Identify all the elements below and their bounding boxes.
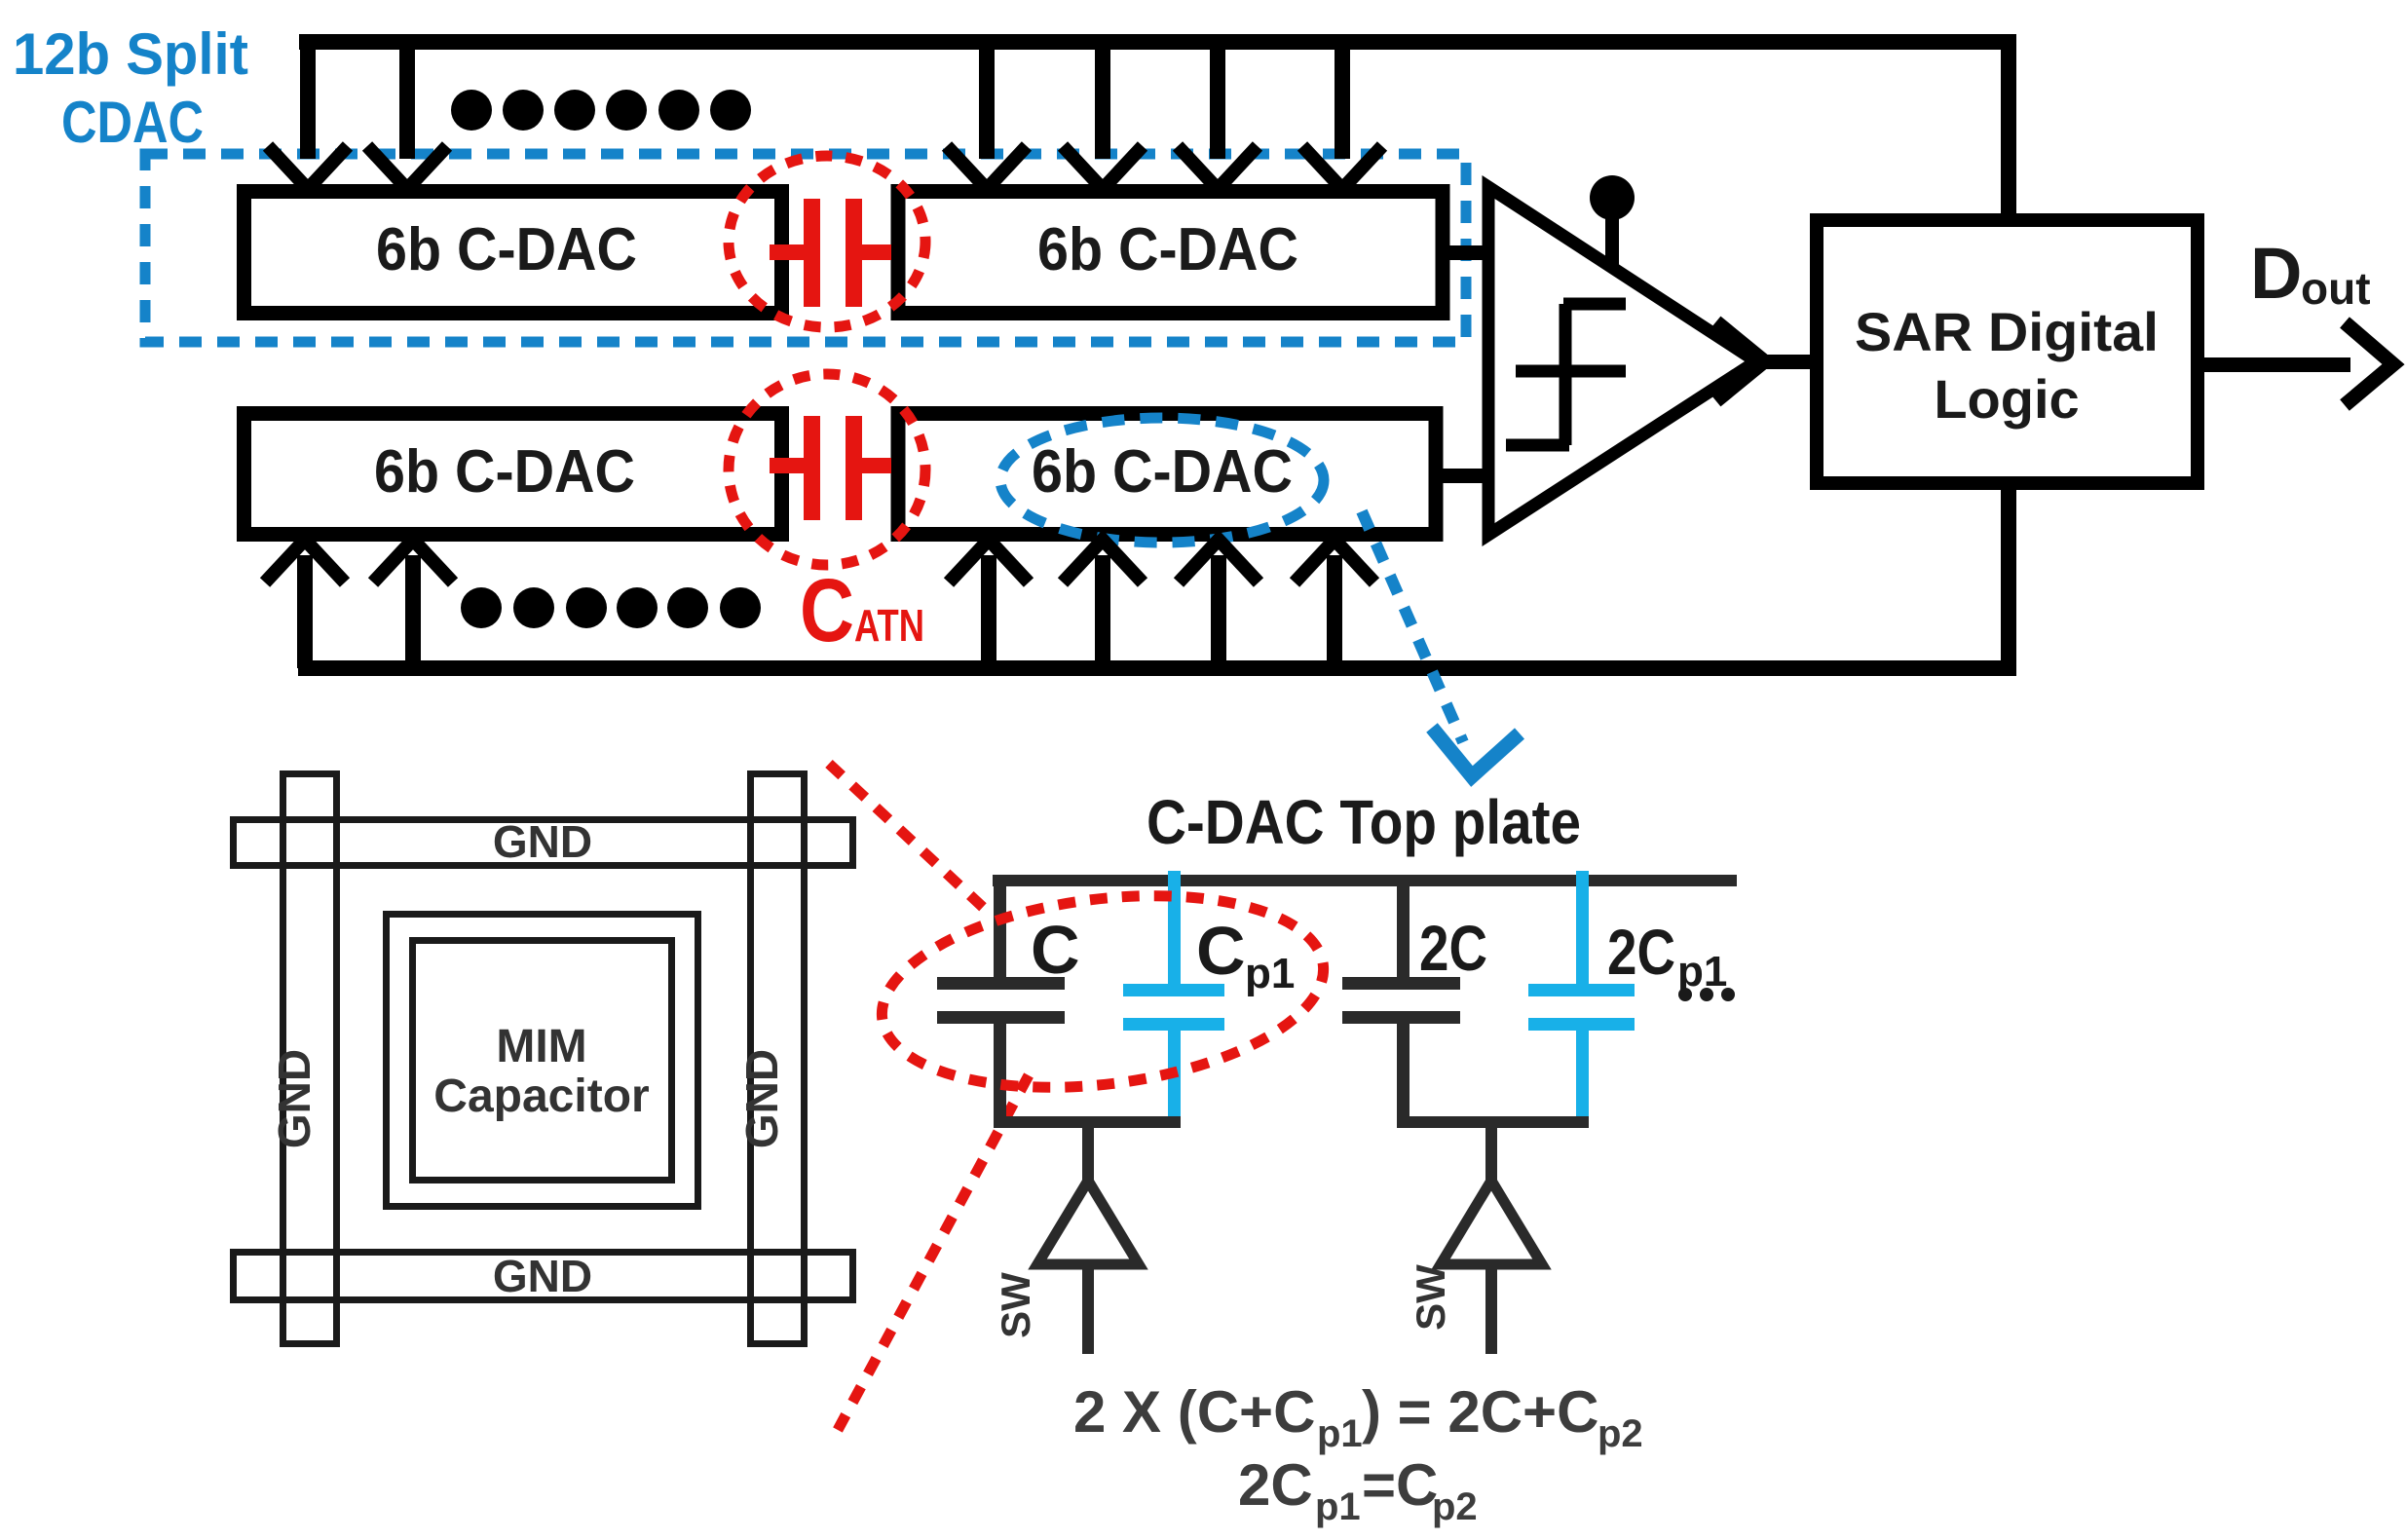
capacitor 2Cp1 vertical upper [1576, 871, 1589, 986]
svg-text:Logic: Logic [1934, 368, 2079, 430]
arrowhead down 3 [947, 146, 1027, 189]
capacitor 2C plates [1342, 977, 1460, 990]
branch C vertical upper [994, 884, 1006, 979]
svg-text:2C: 2C [1419, 912, 1487, 984]
arrowhead up 3 [949, 540, 1029, 582]
svg-text:CDAC: CDAC [61, 90, 204, 155]
svg-text:GND: GND [736, 1049, 787, 1148]
svg-text:6b C-DAC: 6b C-DAC [1032, 438, 1293, 506]
wire bottom arrow shaft 1 [297, 555, 313, 668]
svg-text:SAR Digital: SAR Digital [1855, 301, 2159, 362]
wire top feedback bus [299, 34, 2016, 50]
GND rail right [751, 774, 805, 1344]
GND rail bottom [234, 1253, 853, 1300]
wire bottom arrow shaft 6 [1327, 555, 1342, 668]
wire top arrow shaft 6 [1335, 42, 1350, 159]
top plate rail [993, 875, 1737, 886]
switch SW2 lower stub [1485, 1264, 1497, 1354]
comparator clock stem [1605, 198, 1619, 268]
GND rail top [234, 820, 853, 866]
arrowhead Dout [2345, 322, 2393, 405]
wire bottom arrow shaft 5 [1211, 555, 1226, 668]
capacitor Cp1 vertical upper [1168, 871, 1181, 986]
arrowhead up 5 [1179, 540, 1259, 582]
branch C vertical lower [994, 1024, 1006, 1122]
wire top arrow shaft 4 [1095, 42, 1110, 159]
arrowhead into SAR [1716, 321, 1765, 401]
wire comparator output [1749, 355, 1810, 369]
svg-text:p2: p2 [1598, 1412, 1643, 1455]
wire stub top DAC to comparator [1443, 245, 1488, 260]
svg-text:MIM: MIM [496, 1021, 586, 1072]
svg-text:6b C-DAC: 6b C-DAC [1037, 216, 1298, 283]
red dashed ellipse around C and Cp1 [871, 873, 1335, 1110]
wire top arrow shaft 3 [979, 42, 995, 159]
svg-text:p1: p1 [1315, 1485, 1361, 1528]
comparator hysteresis symbol [1563, 298, 1626, 311]
svg-text:12b Split: 12b Split [13, 21, 248, 87]
svg-text:GND: GND [493, 1251, 592, 1301]
svg-text:SW: SW [1408, 1264, 1453, 1331]
capacitor 2Cp1 vertical lower [1576, 1031, 1589, 1128]
capacitor CATN bottom plates [804, 416, 820, 520]
wire bottom feedback bus [298, 660, 2016, 676]
red dashed circle bottom [729, 374, 925, 565]
red dashed circle top [729, 156, 925, 327]
box 6b C-DAC bottom-right [898, 414, 1436, 535]
wire bottom arrow shaft 2 [405, 555, 421, 668]
branch 2C bottom wire [1397, 1116, 1589, 1128]
wire Dout output [2204, 357, 2350, 372]
svg-text:p1: p1 [1317, 1412, 1363, 1455]
wire stub bottom DAC to comparator [1443, 469, 1488, 483]
red dashed connector upper [829, 764, 988, 912]
dots top ellipsis [451, 90, 751, 131]
capacitor Cp1 vertical lower [1168, 1031, 1181, 1128]
svg-text:2C: 2C [1238, 1452, 1313, 1518]
branch 2C vertical lower [1397, 1024, 1410, 1122]
arrowhead up 4 [1063, 540, 1143, 582]
svg-text:SW: SW [993, 1272, 1038, 1338]
capacitor C plates [937, 977, 1065, 990]
switch SW2 stub [1485, 1128, 1497, 1208]
red dashed connector lower [838, 1075, 1029, 1430]
MIM capacitor inner frame [413, 941, 672, 1181]
svg-text:ATN: ATN [854, 600, 924, 651]
capacitor CATN top leads [770, 244, 804, 260]
svg-text:2 X (C+C: 2 X (C+C [1073, 1379, 1315, 1445]
switch SW1 lower stub [1082, 1264, 1094, 1354]
svg-text:GND: GND [269, 1049, 320, 1148]
switch SW2 triangle [1441, 1181, 1542, 1264]
branch 2C vertical upper [1397, 884, 1410, 979]
svg-text:C-DAC Top plate: C-DAC Top plate [1147, 787, 1581, 857]
comparator clock dot [1590, 175, 1635, 220]
capacitor 2Cp1 plates [1528, 984, 1635, 996]
GND rail left [283, 774, 337, 1344]
svg-text:6b C-DAC: 6b C-DAC [376, 216, 637, 283]
box 6b C-DAC top-right [898, 192, 1443, 314]
wire right vertical top to SAR [2001, 34, 2016, 220]
arrowhead up 2 [373, 540, 453, 582]
svg-text:D: D [2250, 233, 2302, 314]
svg-text:=C: =C [1362, 1452, 1438, 1518]
box 6b C-DAC top-left [244, 192, 782, 314]
CDAC boundary blue dashed rect [145, 154, 1466, 342]
box SAR Digital Logic [1817, 220, 2198, 483]
arrowhead up 6 [1295, 540, 1374, 582]
dots bottom ellipsis [461, 587, 761, 628]
wire SAR bottom vertical [2001, 483, 2016, 676]
arrowhead down 4 [1063, 146, 1143, 189]
capacitor CATN bottom leads [770, 458, 804, 473]
wire bottom arrow shaft 3 [981, 555, 996, 668]
comparator U1 triangle [1488, 187, 1756, 535]
switch SW1 triangle [1037, 1181, 1139, 1264]
wire top arrow shaft 2 [399, 42, 415, 159]
svg-text:Capacitor: Capacitor [433, 1070, 649, 1122]
MIM capacitor outer frame [387, 915, 698, 1207]
svg-text:C: C [1196, 913, 1246, 989]
arrowhead down 1 [268, 146, 348, 189]
arrowhead up 1 [265, 540, 345, 582]
dots after 2Cp1 [1678, 988, 1735, 1001]
wire top arrow shaft 5 [1210, 42, 1225, 159]
blue dashed ellipse on bottom-right DAC [1000, 418, 1324, 543]
svg-text:out: out [2301, 263, 2371, 314]
arrowhead down 2 [367, 146, 447, 189]
switch SW1 stub [1082, 1128, 1094, 1208]
svg-text:p2: p2 [1432, 1485, 1478, 1528]
svg-text:C: C [1031, 912, 1080, 988]
box 6b C-DAC bottom-left [244, 414, 782, 535]
capacitor CATN top plates [804, 199, 820, 307]
svg-text:GND: GND [493, 816, 592, 867]
capacitor Cp1 plates [1123, 984, 1224, 996]
svg-text:p1: p1 [1245, 950, 1295, 997]
branch C bottom wire [994, 1116, 1181, 1128]
blue zoom arrowhead [1432, 728, 1520, 776]
svg-text:2C: 2C [1607, 916, 1675, 988]
svg-text:C: C [800, 561, 854, 660]
blue dashed zoom line [1362, 511, 1463, 742]
arrowhead down 6 [1302, 146, 1382, 189]
wire bottom arrow shaft 4 [1095, 555, 1110, 668]
wire top-left arrow shaft 1 [300, 34, 316, 159]
arrowhead down 5 [1178, 146, 1258, 189]
svg-text:6b C-DAC: 6b C-DAC [374, 438, 635, 506]
svg-text:) = 2C+C: ) = 2C+C [1362, 1379, 1598, 1445]
